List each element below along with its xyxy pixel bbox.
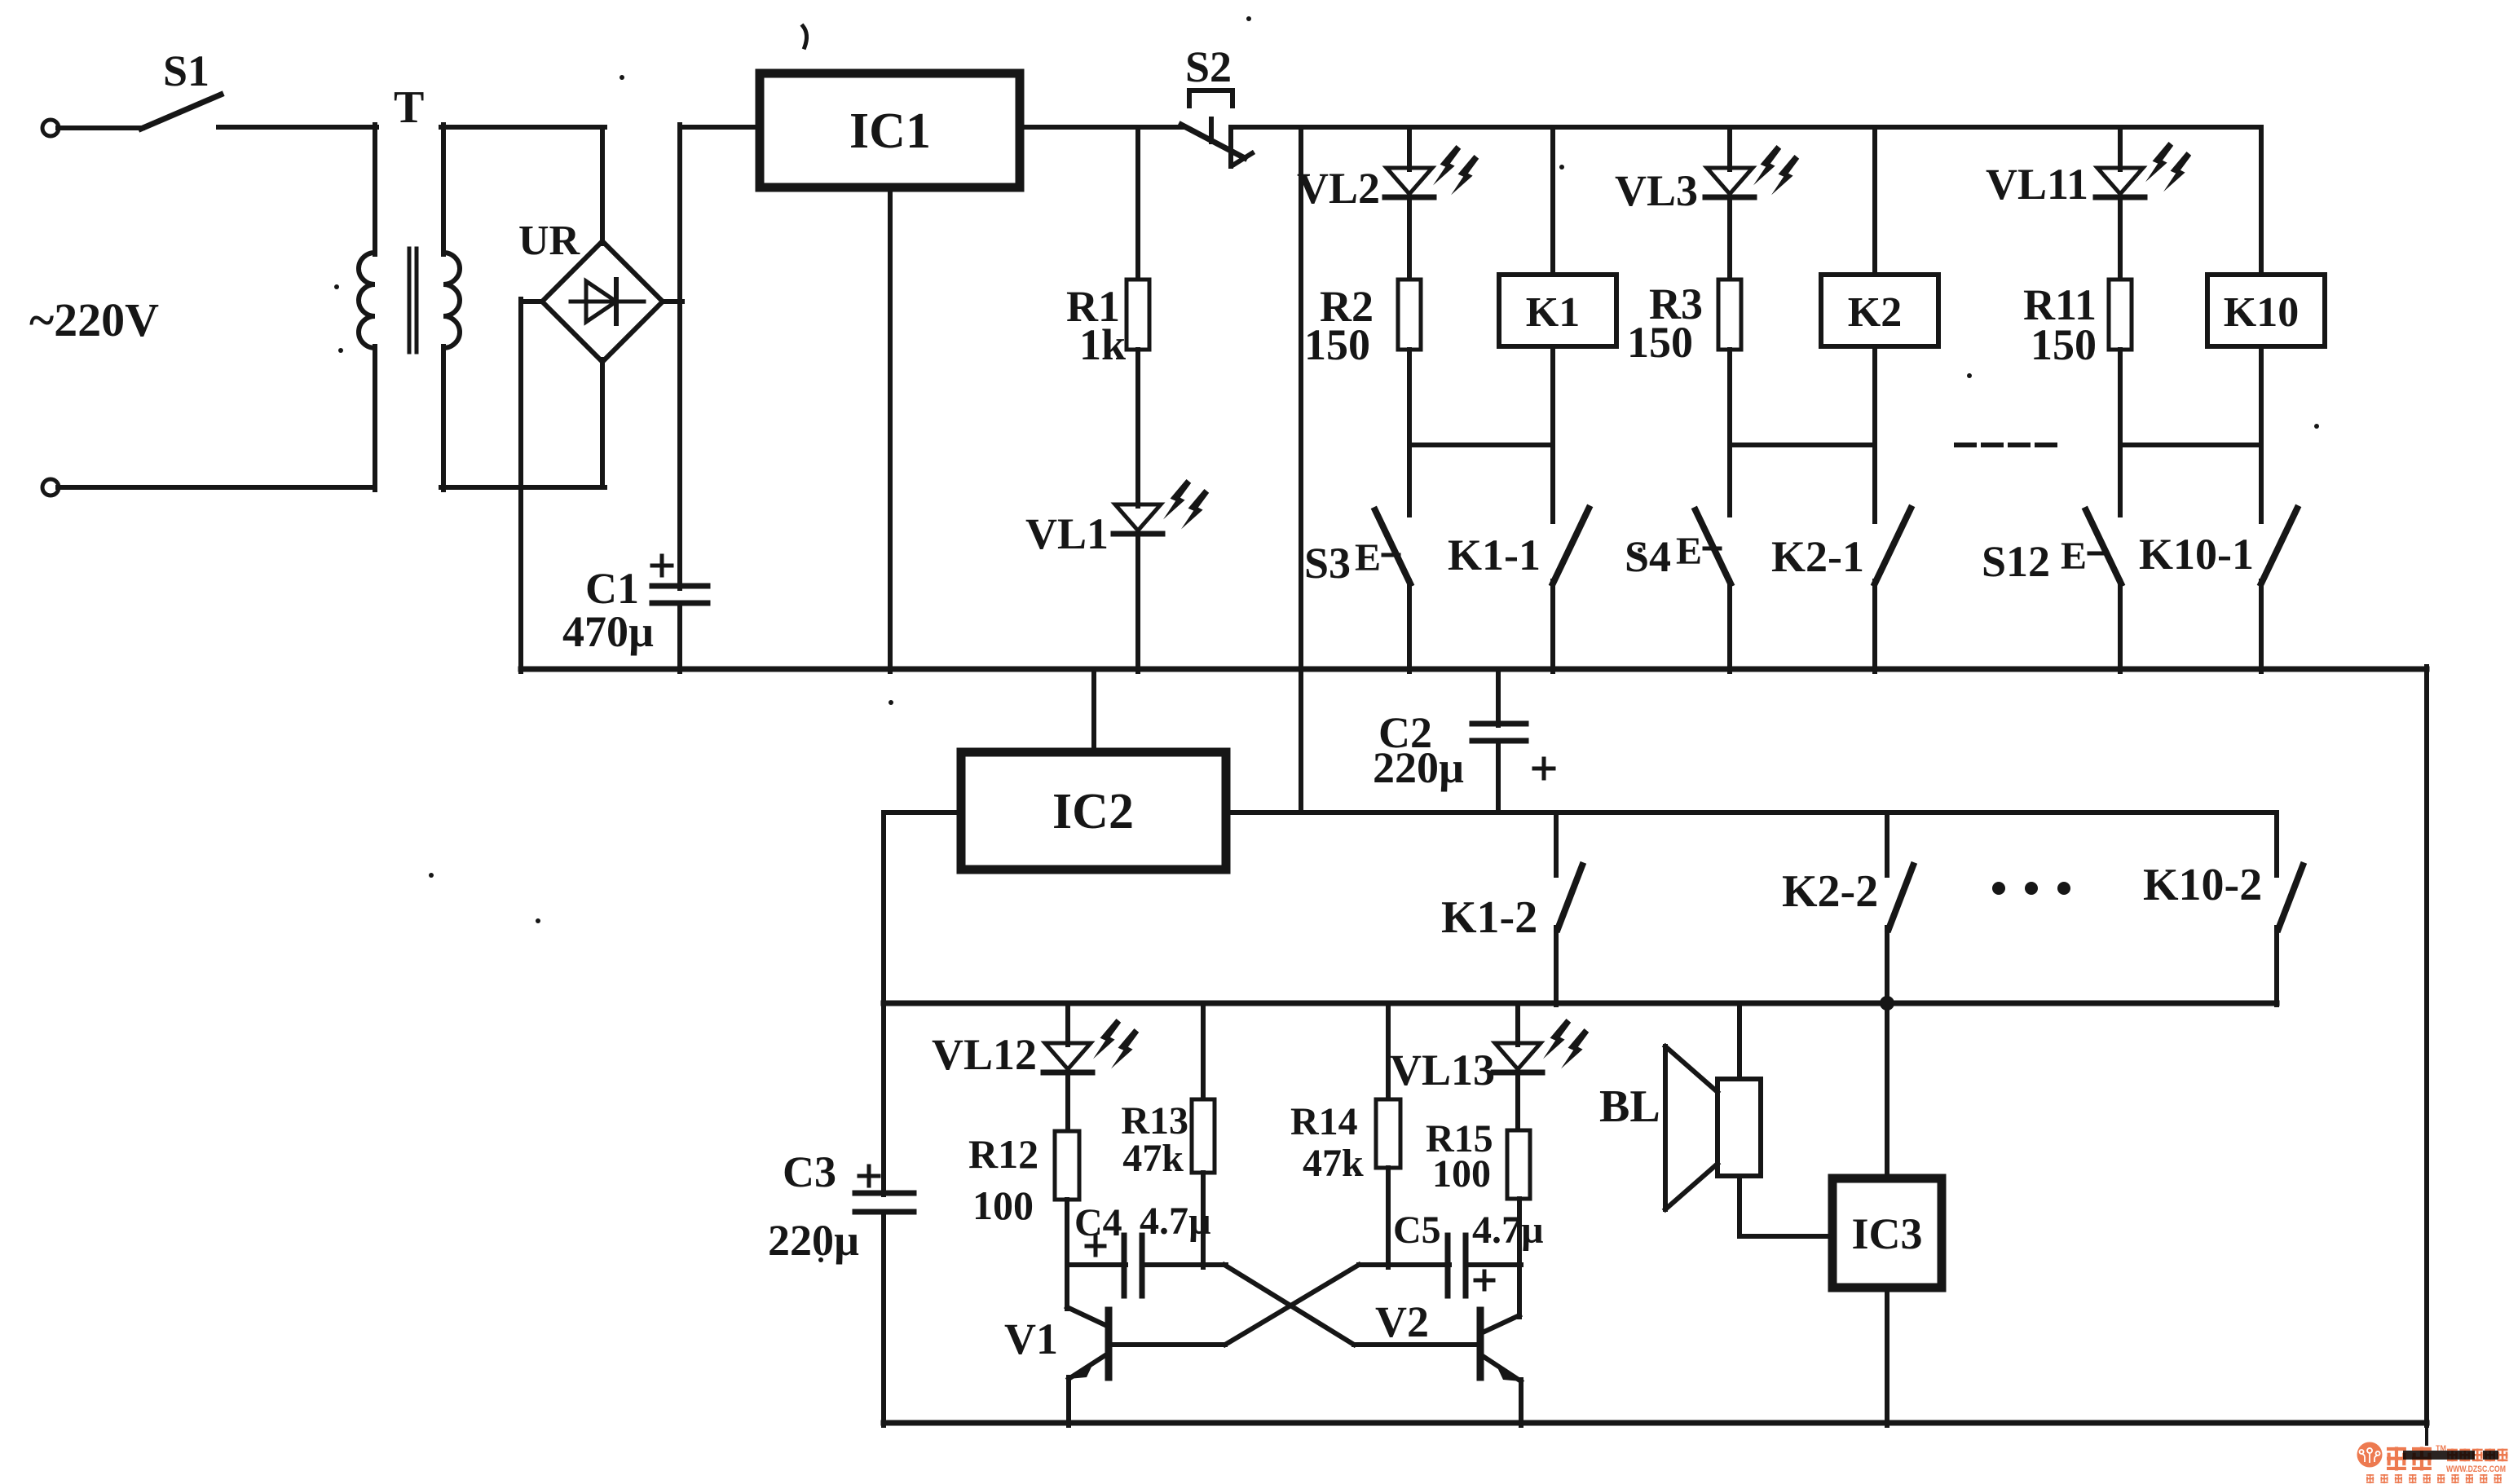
svg-text:C5: C5	[1393, 1209, 1441, 1252]
svg-text:R14: R14	[1290, 1100, 1358, 1143]
svg-text:V2: V2	[1375, 1297, 1429, 1346]
svg-text:VL3: VL3	[1615, 166, 1698, 215]
svg-text:IC3: IC3	[1851, 1209, 1922, 1258]
svg-text:K1-2: K1-2	[1441, 892, 1537, 943]
svg-text:S12: S12	[1982, 537, 2050, 586]
svg-text:K1-1: K1-1	[1448, 531, 1541, 579]
svg-text:VL12: VL12	[932, 1030, 1037, 1079]
svg-text:K1: K1	[1526, 289, 1580, 336]
svg-text:IC1: IC1	[849, 103, 931, 159]
svg-text:WWW.DZSC.COM: WWW.DZSC.COM	[2446, 1464, 2506, 1474]
svg-text:100: 100	[972, 1182, 1034, 1228]
svg-text:E: E	[1676, 530, 1702, 573]
svg-text:K10-1: K10-1	[2139, 530, 2254, 579]
svg-text:UR: UR	[518, 218, 581, 264]
svg-text:S1: S1	[163, 46, 209, 95]
svg-text:220µ: 220µ	[768, 1216, 859, 1265]
svg-text:150: 150	[2031, 320, 2097, 369]
svg-text:K10-2: K10-2	[2143, 860, 2262, 910]
svg-text:~220V: ~220V	[29, 293, 159, 346]
svg-text:E: E	[1355, 536, 1381, 579]
svg-text:T: T	[394, 82, 424, 133]
svg-text:K10: K10	[2224, 289, 2299, 336]
svg-text:150: 150	[1627, 318, 1693, 367]
svg-text:150: 150	[1304, 320, 1370, 369]
svg-text:VL2: VL2	[1297, 164, 1380, 213]
svg-text:220µ: 220µ	[1373, 743, 1464, 792]
svg-text:VL13: VL13	[1390, 1046, 1495, 1094]
svg-text:V1: V1	[1004, 1314, 1058, 1363]
svg-text:K2-1: K2-1	[1771, 532, 1864, 581]
svg-text:E: E	[2061, 535, 2087, 578]
svg-text:470µ: 470µ	[562, 607, 654, 656]
svg-text:S4: S4	[1625, 532, 1671, 581]
svg-text:47k: 47k	[1303, 1142, 1364, 1185]
svg-text:S3: S3	[1304, 539, 1351, 588]
svg-text:TM: TM	[2436, 1444, 2446, 1452]
svg-text:VL1: VL1	[1025, 509, 1109, 558]
svg-text:R12: R12	[968, 1131, 1038, 1177]
svg-text:100: 100	[1432, 1152, 1491, 1196]
svg-text:BL: BL	[1599, 1081, 1660, 1132]
svg-text:4.7µ: 4.7µ	[1472, 1209, 1544, 1252]
svg-text:IC2: IC2	[1052, 784, 1134, 839]
svg-text:S2: S2	[1185, 42, 1232, 91]
svg-text:VL11: VL11	[1986, 160, 2088, 209]
svg-text:C3: C3	[783, 1147, 836, 1196]
svg-text:4.7µ: 4.7µ	[1140, 1200, 1211, 1243]
svg-text:K2: K2	[1848, 289, 1902, 336]
svg-text:C1: C1	[585, 564, 639, 613]
svg-text:47k: 47k	[1122, 1137, 1184, 1180]
svg-text:C4: C4	[1074, 1201, 1122, 1244]
svg-text:1k: 1k	[1079, 320, 1126, 369]
svg-text:K2-2: K2-2	[1782, 866, 1878, 917]
